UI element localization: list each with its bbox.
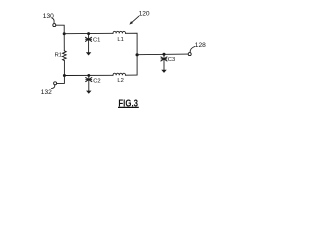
wire top rail left segment bbox=[64, 32, 113, 34]
capacitor C3 junction dot bbox=[162, 53, 165, 56]
wire left vertical lower segment bbox=[63, 61, 65, 76]
capacitor C2 ground arrow bbox=[86, 91, 91, 94]
svg-text:L1: L1 bbox=[117, 37, 123, 43]
wire from node C to terminal 132 bbox=[57, 75, 65, 83]
capacitor C2 stem bbox=[88, 75, 90, 90]
inductor L1 bbox=[113, 31, 125, 33]
wire top rail right segment bbox=[126, 33, 138, 54]
terminal 128 bbox=[188, 53, 191, 56]
wire output to terminal 128 bbox=[137, 53, 188, 56]
svg-text:128: 128 bbox=[195, 42, 206, 49]
svg-text:130: 130 bbox=[43, 13, 54, 20]
leader line for 130 bbox=[52, 18, 54, 23]
svg-text:R1: R1 bbox=[55, 53, 62, 59]
capacitor C1 junction dot bbox=[87, 32, 90, 35]
svg-text:L2: L2 bbox=[117, 78, 123, 84]
capacitor C3 symbol bbox=[161, 57, 167, 61]
caption underline bbox=[118, 106, 139, 108]
capacitor C3 stem bbox=[163, 54, 165, 69]
wire left vertical upper segment bbox=[63, 34, 65, 51]
capacitor C1 stem bbox=[88, 34, 90, 53]
wire from terminal 130 to node A bbox=[56, 25, 64, 32]
resistor R1 bbox=[63, 51, 67, 61]
svg-text:C3: C3 bbox=[168, 57, 175, 63]
leader line for 132 bbox=[52, 85, 55, 89]
capacitor C1 symbol bbox=[86, 37, 92, 41]
svg-text:120: 120 bbox=[139, 11, 150, 18]
svg-text:C2: C2 bbox=[93, 79, 100, 85]
node A junction dot bbox=[63, 32, 66, 35]
wire right vertical lower segment bbox=[136, 56, 138, 76]
node B junction dot bbox=[136, 53, 139, 56]
terminal 132 bbox=[54, 82, 57, 85]
leader arrow line for 120 bbox=[132, 16, 139, 23]
capacitor C2 junction dot bbox=[87, 74, 90, 77]
capacitor C1 ground arrow bbox=[86, 52, 91, 55]
capacitor C3 ground arrow bbox=[161, 70, 166, 73]
svg-text:C1: C1 bbox=[93, 38, 100, 44]
arrowhead for 120 bbox=[129, 21, 133, 24]
node C junction dot bbox=[63, 74, 66, 77]
inductor L2 bbox=[113, 73, 125, 75]
wire bottom rail left segment bbox=[64, 74, 113, 76]
svg-text:132: 132 bbox=[41, 89, 52, 96]
capacitor C2 symbol bbox=[86, 78, 92, 82]
terminal 130 bbox=[53, 24, 56, 27]
leader line for 128 bbox=[190, 47, 195, 53]
wire bottom rail right segment bbox=[126, 74, 138, 76]
